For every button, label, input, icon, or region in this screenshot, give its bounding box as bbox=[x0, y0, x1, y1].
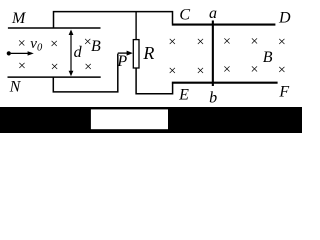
svg-text:×: × bbox=[84, 60, 92, 75]
wire plate N to slider P bbox=[53, 54, 118, 92]
svg-text:×: × bbox=[18, 37, 26, 52]
svg-text:N: N bbox=[9, 79, 22, 96]
velocity arrow v0 bbox=[11, 51, 34, 55]
resistor R body bbox=[133, 40, 139, 68]
svg-text:F: F bbox=[278, 84, 289, 101]
svg-text:×: × bbox=[251, 35, 259, 50]
svg-text:P: P bbox=[116, 53, 127, 70]
svg-text:×: × bbox=[251, 62, 259, 77]
svg-text:×: × bbox=[168, 64, 176, 79]
svg-text:a: a bbox=[209, 5, 217, 22]
svg-text:×: × bbox=[278, 35, 286, 50]
B field crosses right region row 1 bbox=[168, 35, 285, 51]
plate M bbox=[8, 27, 101, 29]
censored caption bar bbox=[0, 107, 302, 133]
dimension arrow d bbox=[69, 30, 74, 77]
svg-text:d: d bbox=[74, 44, 83, 61]
B field crosses between plates row 2 bbox=[18, 59, 92, 75]
particle bbox=[7, 51, 11, 55]
plate N bbox=[8, 76, 101, 78]
svg-text:×: × bbox=[223, 62, 231, 77]
svg-text:×: × bbox=[51, 60, 59, 75]
svg-text:×: × bbox=[50, 37, 58, 52]
rail CD bbox=[172, 24, 276, 26]
B field crosses between plates row 1 bbox=[18, 35, 92, 52]
slider arrow P bbox=[118, 51, 133, 56]
svg-text:×: × bbox=[196, 35, 204, 50]
svg-text:M: M bbox=[11, 10, 27, 27]
caption window bbox=[91, 109, 168, 129]
svg-text:B: B bbox=[263, 49, 273, 66]
svg-text:×: × bbox=[18, 59, 26, 74]
svg-text:×: × bbox=[278, 63, 286, 78]
svg-text:×: × bbox=[168, 35, 176, 50]
svg-text:×: × bbox=[223, 35, 231, 50]
svg-text:B: B bbox=[91, 38, 101, 55]
rail EF bbox=[172, 82, 278, 84]
svg-text:×: × bbox=[196, 64, 204, 79]
wire rail CD to resistor bbox=[135, 12, 137, 40]
svg-text:R: R bbox=[142, 43, 154, 63]
svg-text:b: b bbox=[209, 89, 217, 106]
svg-text:C: C bbox=[179, 6, 190, 23]
wire resistor to rail EF bbox=[136, 68, 173, 94]
B field crosses right region row 2 bbox=[168, 62, 285, 79]
bar ab bbox=[212, 21, 214, 87]
svg-text:D: D bbox=[278, 10, 291, 27]
wire plate M to rail C bbox=[54, 12, 173, 28]
svg-text:E: E bbox=[178, 87, 189, 104]
svg-text:×: × bbox=[84, 35, 92, 50]
